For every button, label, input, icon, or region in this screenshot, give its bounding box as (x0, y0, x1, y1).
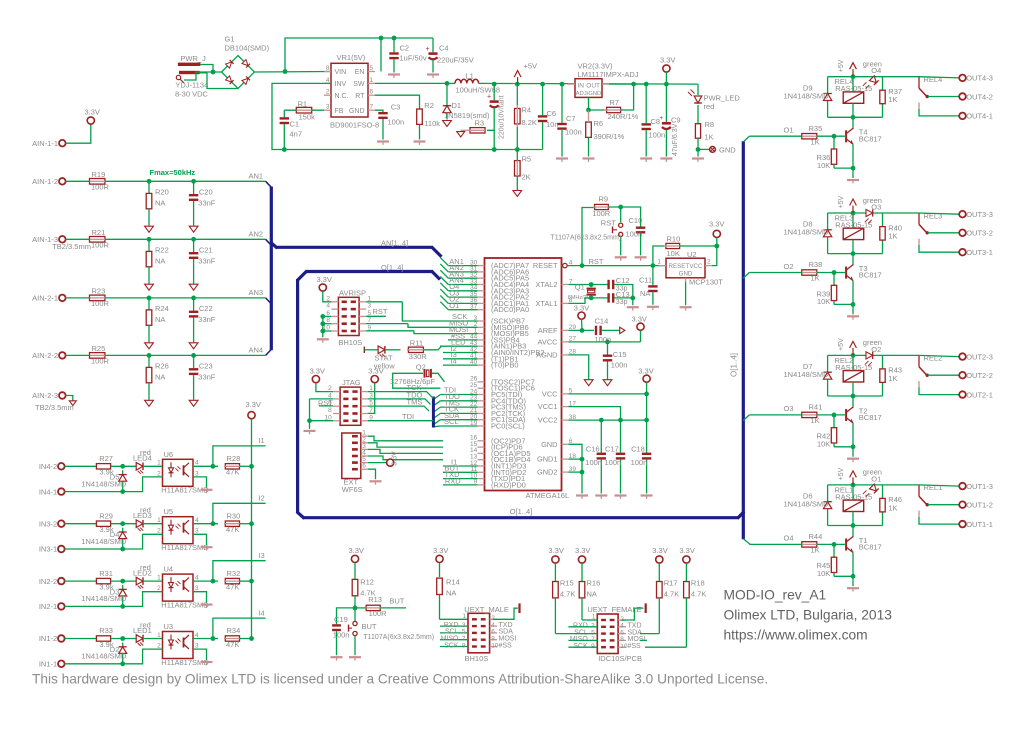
svg-text:AIN-2-3: AIN-2-3 (32, 391, 58, 400)
svg-text:I2: I2 (258, 494, 264, 503)
svg-text:1K: 1K (888, 95, 897, 104)
svg-text:This hardware design by Olimex: This hardware design by Olimex LTD is li… (32, 672, 768, 687)
svg-text:PWR_J: PWR_J (180, 54, 206, 63)
svg-text:+5V: +5V (524, 62, 538, 71)
svg-text:3.3V: 3.3V (575, 546, 590, 555)
svg-text:100R: 100R (91, 183, 110, 192)
svg-text:33nF: 33nF (198, 315, 216, 324)
svg-text:R26: R26 (155, 362, 169, 371)
svg-text:GND2: GND2 (537, 468, 558, 477)
svg-text:YDJ-1134: YDJ-1134 (175, 80, 208, 89)
svg-text:3.3V: 3.3V (85, 108, 100, 117)
svg-text:AN1: AN1 (249, 171, 264, 180)
svg-text:AREF: AREF (538, 326, 558, 335)
svg-text:TB2/3.5mm: TB2/3.5mm (52, 242, 91, 251)
svg-text:C13: C13 (616, 290, 630, 299)
svg-text:LED3: LED3 (133, 511, 152, 520)
svg-text:C7: C7 (566, 114, 576, 123)
svg-text:OUT3-3: OUT3-3 (966, 210, 993, 219)
svg-text:330R: 330R (409, 352, 428, 361)
svg-text:R44: R44 (809, 532, 823, 541)
svg-text:RESET: RESET (533, 261, 558, 270)
svg-text:U4: U4 (164, 565, 174, 574)
svg-text:G1: G1 (225, 35, 235, 44)
svg-text:O1: O1 (783, 126, 793, 135)
svg-text:R16: R16 (587, 579, 601, 588)
svg-text:R2: R2 (424, 101, 434, 110)
svg-text:I4: I4 (258, 608, 264, 617)
svg-text:5: 5 (370, 65, 374, 72)
svg-text:+5V: +5V (838, 59, 845, 72)
svg-text:+: + (487, 94, 491, 101)
svg-text:100n: 100n (333, 631, 350, 640)
svg-text:1K: 1K (811, 416, 820, 425)
svg-text:#SS: #SS (499, 642, 513, 649)
svg-text:8: 8 (328, 407, 332, 414)
svg-text:DB104(SMD): DB104(SMD) (225, 44, 270, 53)
svg-text:R13: R13 (368, 595, 382, 604)
svg-text:8: 8 (326, 65, 330, 72)
svg-text:NA: NA (446, 588, 456, 597)
svg-text:WF6S: WF6S (342, 485, 363, 494)
svg-text:R25: R25 (92, 344, 106, 353)
svg-text:47K: 47K (226, 640, 239, 649)
svg-text:3.3V: 3.3V (310, 366, 325, 375)
svg-text:100n: 100n (605, 458, 622, 467)
svg-text:O3: O3 (783, 404, 793, 413)
svg-text:1: 1 (370, 77, 374, 84)
svg-text:220u/10V/tant: 220u/10V/tant (499, 95, 506, 139)
svg-text:1K: 1K (705, 133, 714, 142)
svg-text:3.3V: 3.3V (317, 275, 332, 284)
svg-text:C20: C20 (199, 188, 213, 197)
svg-text:IN3-2: IN3-2 (39, 519, 57, 528)
svg-text:2: 2 (326, 89, 330, 96)
svg-text:R32: R32 (227, 569, 241, 578)
svg-text:AN3: AN3 (249, 288, 264, 297)
svg-text:100R: 100R (91, 357, 110, 366)
svg-text:NA: NA (155, 315, 165, 324)
svg-text:10K: 10K (817, 161, 830, 170)
svg-text:AVRISP: AVRISP (339, 288, 366, 297)
svg-text:OUT4-2: OUT4-2 (966, 92, 993, 101)
svg-text:SCK: SCK (444, 642, 459, 649)
svg-text:AIN-1-2: AIN-1-2 (32, 177, 58, 186)
svg-text:3.3V: 3.3V (574, 303, 589, 312)
svg-text:VR2(3.3V): VR2(3.3V) (578, 61, 614, 70)
svg-text:BUT: BUT (389, 597, 404, 606)
svg-text:C16: C16 (586, 444, 600, 453)
svg-text:10K: 10K (817, 297, 830, 306)
svg-text:C23: C23 (199, 362, 213, 371)
svg-text:3.3V: 3.3V (638, 367, 653, 376)
svg-text:1K: 1K (811, 546, 820, 555)
svg-text:100n: 100n (649, 131, 666, 140)
svg-text:R11: R11 (410, 339, 423, 348)
svg-text:NA: NA (640, 289, 650, 298)
svg-text:1: 1 (657, 259, 661, 266)
svg-text:100R: 100R (91, 299, 110, 308)
svg-text:T1107A(6x3.8x2.5mm): T1107A(6x3.8x2.5mm) (363, 634, 434, 641)
svg-text:TDI: TDI (402, 412, 414, 421)
svg-text:AIN-1-1: AIN-1-1 (32, 139, 58, 148)
svg-text:O[1..4]: O[1..4] (510, 507, 533, 516)
svg-text:1: 1 (157, 460, 161, 467)
svg-text:NA: NA (155, 373, 165, 382)
svg-text:OUT4-3: OUT4-3 (966, 74, 993, 83)
svg-text:OUT: OUT (586, 82, 600, 89)
svg-text:9: 9 (591, 643, 595, 650)
svg-text:100R: 100R (369, 609, 388, 618)
svg-text:9: 9 (462, 642, 466, 649)
svg-text:BC817: BC817 (859, 134, 882, 143)
svg-text:C17: C17 (605, 444, 619, 453)
svg-text:IN3-1: IN3-1 (39, 545, 57, 554)
svg-text:AVCC: AVCC (538, 337, 559, 346)
svg-text:AGND: AGND (536, 350, 557, 359)
svg-text:3.3V: 3.3V (660, 56, 675, 65)
svg-text:U6: U6 (164, 450, 174, 459)
svg-text:LM1117IMPX-ADJ: LM1117IMPX-ADJ (578, 70, 639, 79)
svg-text:R17: R17 (664, 579, 678, 588)
svg-text:O2: O2 (783, 262, 793, 271)
svg-text:VCC2: VCC2 (538, 416, 558, 425)
svg-text:LED4: LED4 (133, 454, 152, 463)
svg-text:Q1: Q1 (575, 283, 585, 292)
svg-text:VCC: VCC (542, 389, 558, 398)
svg-text:47K: 47K (226, 582, 239, 591)
svg-text:1N4148/SMD: 1N4148/SMD (81, 479, 127, 488)
svg-text:SCK: SCK (573, 643, 588, 650)
svg-text:4: 4 (195, 517, 199, 524)
svg-text:IN4-2: IN4-2 (39, 462, 57, 471)
svg-text:U3: U3 (164, 622, 174, 631)
svg-text:O1: O1 (449, 301, 459, 310)
svg-text:110k: 110k (424, 119, 440, 128)
svg-text:R4: R4 (522, 106, 532, 115)
svg-text:(T0)PB0: (T0)PB0 (491, 361, 519, 370)
svg-text:GND: GND (541, 440, 557, 449)
svg-text:C2: C2 (400, 44, 410, 53)
svg-text:C6: C6 (547, 109, 557, 118)
svg-text:+: + (660, 116, 664, 122)
svg-text:10n: 10n (546, 120, 559, 129)
svg-text:BD9001FSO-8: BD9001FSO-8 (330, 121, 379, 130)
svg-text:I1: I1 (258, 436, 264, 445)
svg-text:NA: NA (587, 590, 597, 599)
svg-text:AIN-2-2: AIN-2-2 (32, 351, 58, 360)
svg-text:RST: RST (601, 218, 616, 227)
svg-text:AN4: AN4 (249, 345, 264, 354)
svg-text:3.3V: 3.3V (679, 546, 694, 555)
svg-text:3.3V: 3.3V (652, 546, 667, 555)
svg-text:GND1: GND1 (537, 455, 558, 464)
svg-text:R3: R3 (475, 119, 485, 128)
svg-text:R35: R35 (809, 124, 823, 133)
svg-text:33nF: 33nF (198, 199, 216, 208)
svg-text:https://www.olimex.com: https://www.olimex.com (724, 628, 868, 643)
svg-text:1N4148/SMD: 1N4148/SMD (81, 537, 127, 546)
svg-text:AN2: AN2 (249, 229, 264, 238)
svg-text:ATMEGA16L: ATMEGA16L (526, 491, 570, 500)
svg-text:Fmax=50kHz: Fmax=50kHz (150, 168, 196, 177)
svg-text:AIN-2-1: AIN-2-1 (32, 294, 58, 303)
svg-text:TB2/3.5mm: TB2/3.5mm (35, 403, 74, 412)
svg-text:33nF: 33nF (198, 373, 216, 382)
svg-text:1K: 1K (888, 374, 897, 383)
svg-text:33p: 33p (616, 299, 628, 306)
svg-text:3: 3 (368, 303, 372, 310)
svg-text:OUT3-1: OUT3-1 (966, 248, 993, 257)
svg-text:4.7K: 4.7K (664, 590, 679, 599)
svg-text:1N4148/SMD: 1N4148/SMD (784, 500, 830, 509)
svg-text:BUT: BUT (362, 622, 377, 631)
svg-text:O[1..4]: O[1..4] (730, 353, 739, 377)
svg-text:XTAL2: XTAL2 (535, 280, 557, 289)
svg-text:3.3V: 3.3V (368, 366, 383, 375)
svg-text:R15: R15 (560, 579, 574, 588)
svg-text:BC817: BC817 (859, 543, 882, 552)
svg-text:2K: 2K (522, 173, 531, 182)
svg-text:GND: GND (349, 108, 365, 115)
svg-text:D1: D1 (452, 101, 462, 110)
svg-text:FB: FB (335, 108, 344, 115)
svg-text:R33: R33 (99, 626, 113, 635)
svg-text:47K: 47K (226, 525, 239, 534)
svg-text:3.3V: 3.3V (246, 400, 261, 409)
svg-text:1K: 1K (811, 274, 820, 283)
svg-text:NA: NA (155, 257, 165, 266)
svg-text:TMS: TMS (407, 398, 423, 407)
svg-text:I4: I4 (451, 357, 457, 366)
svg-text:RAS-05-15: RAS-05-15 (835, 220, 872, 229)
svg-text:4: 4 (195, 574, 199, 581)
svg-text:O1: O1 (871, 474, 881, 483)
svg-text:8.2K: 8.2K (522, 118, 537, 127)
svg-text:1K: 1K (811, 137, 820, 146)
svg-text:4.7K: 4.7K (560, 590, 575, 599)
svg-text:100R: 100R (592, 209, 611, 218)
svg-text:JTAG: JTAG (342, 378, 361, 387)
svg-text:150k: 150k (299, 113, 316, 122)
svg-text:C12: C12 (616, 276, 630, 285)
svg-text:R31: R31 (99, 569, 113, 578)
svg-text:R10: R10 (667, 235, 681, 244)
svg-text:R12: R12 (360, 577, 374, 586)
svg-text:10K: 10K (667, 249, 680, 258)
svg-text:C14: C14 (595, 316, 609, 325)
svg-text:T1107A(6x3.8x2.5mm): T1107A(6x3.8x2.5mm) (551, 235, 622, 242)
svg-text:(RXD)PD0: (RXD)PD0 (491, 480, 526, 489)
svg-text:100n: 100n (565, 128, 582, 137)
svg-text:4n7: 4n7 (290, 130, 303, 139)
svg-text:NA: NA (155, 199, 165, 208)
svg-text:RAS-05-15: RAS-05-15 (835, 363, 872, 372)
svg-text:IN: IN (578, 82, 585, 89)
svg-text:1: 1 (462, 613, 466, 620)
svg-text:OUT4-1: OUT4-1 (966, 112, 993, 121)
svg-text:IDC10S/PCB: IDC10S/PCB (598, 654, 642, 663)
svg-text:RXD: RXD (445, 476, 461, 485)
svg-text:3.3V: 3.3V (632, 315, 647, 324)
svg-text:C11: C11 (639, 276, 652, 285)
svg-text:RESET: RESET (669, 263, 690, 270)
svg-text:OUT1-1: OUT1-1 (966, 520, 993, 529)
svg-text:I3: I3 (258, 551, 264, 560)
svg-text:+5V: +5V (838, 467, 845, 480)
svg-text:R23: R23 (92, 287, 106, 296)
svg-text:RST: RST (373, 307, 388, 316)
svg-text:R8: R8 (705, 120, 715, 129)
svg-text:100R: 100R (91, 241, 110, 250)
svg-text:100n: 100n (631, 458, 648, 467)
svg-text:1K: 1K (888, 231, 897, 240)
svg-text:AN[1..4]: AN[1..4] (381, 239, 408, 248)
svg-text:1N4148/SMD: 1N4148/SMD (784, 91, 830, 100)
svg-text:MOD-IO_rev_A1: MOD-IO_rev_A1 (724, 588, 827, 603)
svg-text:1N4148/SMD: 1N4148/SMD (81, 594, 127, 603)
svg-text:SCL: SCL (444, 417, 459, 426)
svg-text:47uF/6.3V: 47uF/6.3V (672, 123, 679, 156)
svg-text:R14: R14 (446, 577, 460, 586)
svg-text:1N4148/SMD: 1N4148/SMD (81, 652, 127, 661)
svg-text:VCC1: VCC1 (538, 402, 558, 411)
svg-text:XTAL1: XTAL1 (535, 299, 557, 308)
svg-text:#SS: #SS (628, 643, 642, 650)
svg-text:R28: R28 (227, 454, 241, 463)
svg-text:R29: R29 (99, 511, 113, 520)
svg-text:OUT1-2: OUT1-2 (966, 501, 993, 510)
svg-text:O4: O4 (871, 66, 881, 75)
svg-text:IN4-1: IN4-1 (39, 487, 57, 496)
svg-text:UEXT_MALE: UEXT_MALE (464, 605, 509, 614)
svg-text:R24: R24 (155, 304, 169, 313)
svg-text:GND: GND (719, 145, 736, 154)
svg-text:4: 4 (195, 460, 199, 467)
svg-text:RST: RST (589, 257, 604, 266)
svg-text:SW: SW (353, 81, 365, 88)
svg-text:220uF/35V: 220uF/35V (437, 56, 474, 65)
svg-text:100n: 100n (585, 458, 602, 467)
svg-text:R20: R20 (155, 188, 169, 197)
svg-text:R27: R27 (99, 454, 113, 463)
svg-text:R7: R7 (610, 98, 620, 107)
svg-text:IN2-2: IN2-2 (39, 577, 57, 586)
svg-text:RAS-05-15: RAS-05-15 (835, 492, 872, 501)
svg-text:100uH/SW68: 100uH/SW68 (456, 85, 501, 94)
svg-text:L1: L1 (466, 71, 474, 80)
svg-text:UEXT_FEMALE: UEXT_FEMALE (587, 605, 641, 614)
svg-text:OUT1-3: OUT1-3 (966, 482, 993, 491)
svg-text:LED1: LED1 (133, 626, 152, 635)
svg-text:R5: R5 (522, 155, 532, 164)
svg-text:LED2: LED2 (133, 569, 152, 578)
svg-text:O[1..4]: O[1..4] (381, 263, 404, 272)
svg-text:R34: R34 (227, 626, 241, 635)
svg-text:IN1-2: IN1-2 (39, 634, 57, 643)
svg-text:3.3V: 3.3V (349, 546, 364, 555)
svg-text:1K: 1K (888, 503, 897, 512)
svg-text:100n: 100n (611, 361, 628, 370)
svg-text:7: 7 (370, 104, 374, 111)
svg-text:R18: R18 (691, 579, 705, 588)
svg-text:1N4148/SMD: 1N4148/SMD (784, 370, 830, 379)
svg-text:R22: R22 (155, 246, 169, 255)
svg-text:C4: C4 (439, 44, 449, 53)
svg-text:EN: EN (355, 69, 365, 76)
svg-text:red: red (704, 102, 715, 111)
svg-text:10K: 10K (817, 569, 830, 578)
svg-text:10K: 10K (817, 440, 830, 449)
svg-text:C19: C19 (334, 615, 348, 624)
svg-text:+: + (426, 46, 430, 53)
svg-text:U5: U5 (164, 507, 174, 516)
svg-text:3: 3 (326, 104, 330, 111)
svg-text:BC817: BC817 (859, 271, 882, 280)
svg-text:N.C.: N.C. (335, 93, 349, 100)
svg-text:C22: C22 (199, 304, 213, 313)
svg-text:C15: C15 (613, 350, 627, 359)
svg-text:(ADC0)PA0: (ADC0)PA0 (491, 305, 529, 314)
svg-text:PC0(SCL): PC0(SCL) (491, 422, 525, 431)
svg-text:R30: R30 (227, 511, 241, 520)
svg-text:O4: O4 (783, 534, 793, 543)
svg-text:C18: C18 (631, 444, 645, 453)
svg-text:C10: C10 (629, 216, 643, 225)
svg-text:R38: R38 (809, 260, 823, 269)
svg-text:R1: R1 (298, 99, 308, 108)
svg-text:INV: INV (335, 81, 347, 88)
svg-text:BH10S: BH10S (338, 338, 362, 347)
svg-text:ADJ/GND: ADJ/GND (576, 91, 601, 97)
svg-text:240R/1%: 240R/1% (608, 112, 639, 121)
svg-text:RT: RT (355, 93, 365, 100)
svg-text:MCP130T: MCP130T (689, 278, 723, 287)
svg-text:1N4148/SMD: 1N4148/SMD (784, 228, 830, 237)
svg-text:BC817: BC817 (859, 413, 882, 422)
svg-text:OUT2-1: OUT2-1 (966, 390, 993, 399)
svg-text:OUT2-3: OUT2-3 (966, 352, 993, 361)
svg-text:6: 6 (370, 89, 374, 96)
svg-text:3.3V: 3.3V (548, 546, 563, 555)
svg-text:47K: 47K (226, 468, 239, 477)
svg-text:390R/1%: 390R/1% (594, 132, 625, 141)
svg-text:VCC: VCC (689, 263, 703, 270)
svg-text:1: 1 (157, 517, 161, 524)
svg-text:C1: C1 (290, 120, 300, 129)
svg-text:R6: R6 (594, 119, 604, 128)
svg-text:1: 1 (157, 574, 161, 581)
svg-text:4: 4 (326, 303, 330, 310)
svg-text:Olimex LTD, Bulgaria, 2013: Olimex LTD, Bulgaria, 2013 (724, 608, 893, 623)
svg-text:C9: C9 (671, 116, 681, 125)
svg-text:3.3V: 3.3V (433, 546, 448, 555)
svg-text:IN2-1: IN2-1 (39, 602, 57, 611)
svg-text:1uF/50v: 1uF/50v (400, 54, 427, 63)
svg-text:GND: GND (679, 271, 693, 278)
svg-text:C21: C21 (199, 246, 213, 255)
svg-text:33nF: 33nF (198, 257, 216, 266)
svg-text:R41: R41 (809, 403, 823, 412)
svg-text:3.3V: 3.3V (392, 451, 399, 466)
svg-text:1: 1 (157, 632, 161, 639)
svg-text:R19: R19 (92, 170, 106, 179)
svg-text:VR1(5V): VR1(5V) (337, 53, 366, 62)
svg-text:RAS-05-15: RAS-05-15 (835, 84, 872, 93)
svg-text:4.7K: 4.7K (691, 590, 706, 599)
svg-text:100n: 100n (626, 230, 643, 239)
svg-text:+5V: +5V (838, 196, 845, 209)
